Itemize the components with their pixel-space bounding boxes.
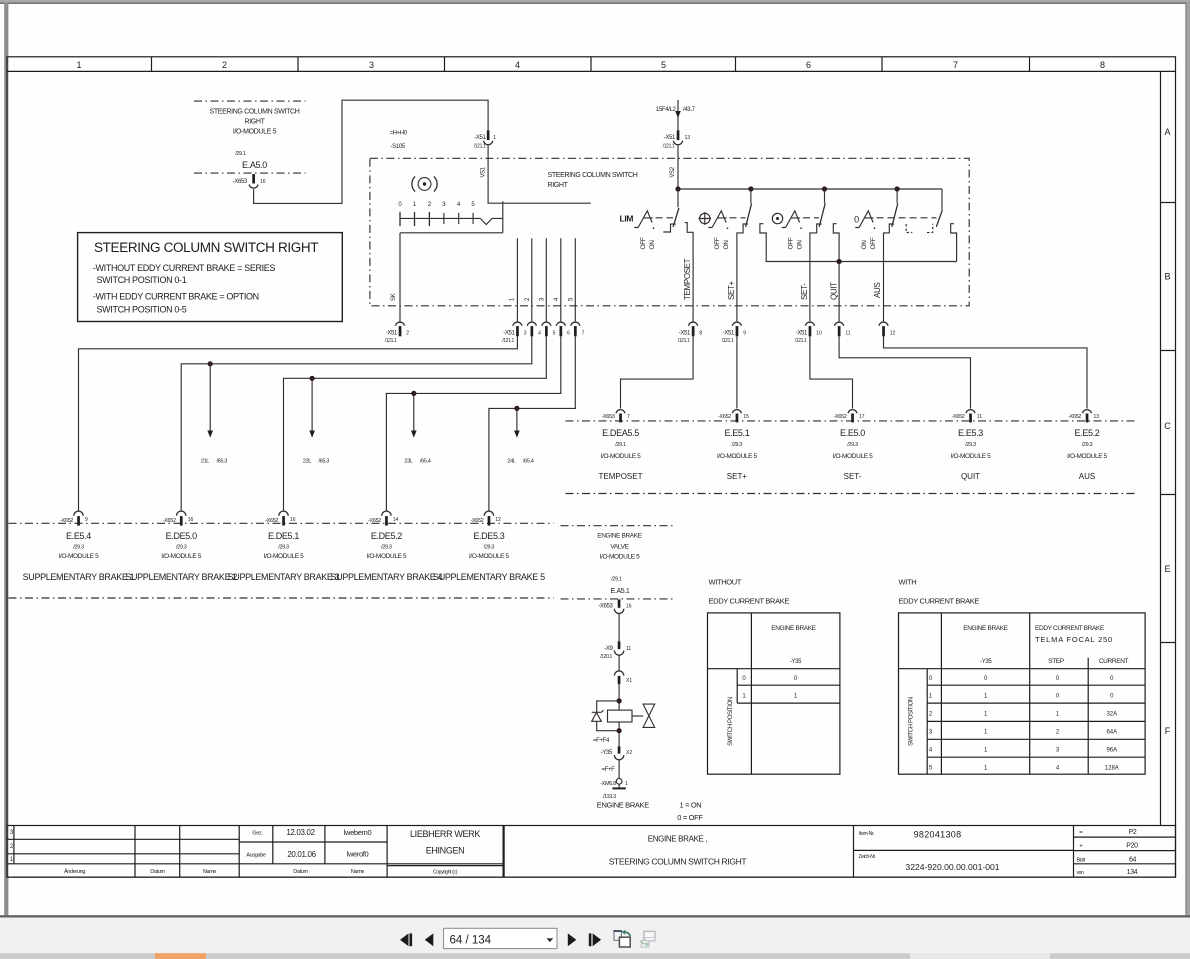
svg-text:0: 0	[854, 215, 859, 225]
switch box S105 boundary	[370, 158, 969, 305]
QUIT contact to bus and pin 11	[830, 224, 840, 322]
svg-text:9: 9	[85, 517, 88, 523]
wire X51.7 to E.DE5.3	[489, 336, 575, 511]
svg-text:/121.1: /121.1	[663, 144, 675, 150]
svg-text:6: 6	[806, 60, 811, 70]
pushbutton AUS actuator	[855, 211, 875, 229]
svg-text:B: B	[1164, 272, 1170, 282]
junction dot QUIT/bus	[837, 259, 842, 264]
svg-text:Datum: Datum	[150, 869, 165, 875]
svg-text:LIEBHERR WERK: LIEBHERR WERK	[410, 829, 480, 839]
svg-text:/121.1: /121.1	[795, 338, 807, 344]
svg-text:-X652: -X652	[718, 414, 731, 420]
svg-text:/29.3: /29.3	[381, 545, 392, 551]
eddy step fixed contact to bus	[951, 224, 957, 262]
svg-text:SUPPLEMENTARY BRAKE 5: SUPPLEMENTARY BRAKE 5	[433, 572, 545, 582]
connector -X652 pin 12 (E.DE5.3)	[470, 511, 501, 525]
svg-text:/29.3: /29.3	[484, 545, 495, 551]
LIM moving contact	[673, 189, 679, 227]
connector -X51 pin 4	[527, 322, 541, 336]
wire X1 to valve coil	[618, 684, 620, 710]
svg-text:64A: 64A	[1106, 730, 1117, 736]
rotary position wire 1	[510, 238, 518, 321]
pushbutton SET- actuator	[782, 211, 802, 229]
wire VS1 from X51.1 into switch box	[481, 145, 591, 203]
AUS mechanical link	[877, 217, 937, 219]
svg-text:SWITCH POSITION 0-1: SWITCH POSITION 0-1	[97, 275, 187, 285]
svg-text:-X652: -X652	[470, 518, 483, 524]
svg-text:Name: Name	[351, 869, 365, 875]
svg-text:QUIT: QUIT	[961, 472, 980, 481]
rotary position wire 3	[540, 238, 547, 321]
svg-text:11: 11	[845, 331, 850, 337]
svg-text:-X51: -X51	[679, 331, 691, 337]
engine brake valve module lower boundary	[561, 598, 673, 600]
svg-text:64: 64	[1129, 856, 1137, 863]
svg-text:SET-: SET-	[844, 472, 862, 481]
connector -X653 pin 16 (valve)	[598, 599, 632, 613]
svg-text:I/O-MODULE 5: I/O-MODULE 5	[833, 453, 874, 460]
wire X51.5 to E.DE5.1	[284, 336, 547, 511]
connector -X9 pin 11 /120.1	[600, 641, 631, 660]
svg-text:134: 134	[1127, 869, 1138, 876]
svg-text:-X652: -X652	[368, 518, 381, 524]
SET- output contact to pin 10	[810, 224, 822, 321]
svg-text:16: 16	[260, 179, 266, 185]
svg-text:-X653: -X653	[233, 179, 248, 185]
svg-text:Zeich-Nr.: Zeich-Nr.	[859, 854, 876, 860]
svg-text:10: 10	[816, 331, 822, 337]
svg-text:128A: 128A	[1105, 766, 1119, 772]
rotate view icon	[613, 930, 630, 947]
svg-text:/119.3: /119.3	[603, 794, 616, 800]
svg-text:E.DE5.2: E.DE5.2	[371, 531, 402, 541]
svg-text:I/O-MODULE 5: I/O-MODULE 5	[366, 553, 407, 560]
svg-text:SUPPLEMENTARY BRAKE 4: SUPPLEMENTARY BRAKE 4	[331, 572, 443, 582]
supply wire 15F4/L2 from /43.7	[656, 100, 696, 130]
info note box steering column switch right	[78, 233, 343, 322]
table without eddy current brake	[708, 578, 840, 775]
svg-text:-WITHOUT EDDY CURRENT BRAKE =: -WITHOUT EDDY CURRENT BRAKE = SERIES	[93, 263, 276, 273]
svg-text:-X51: -X51	[723, 331, 735, 337]
svg-text:I/O-MODULE 5: I/O-MODULE 5	[264, 553, 305, 560]
module E.E5.1 SET+	[717, 428, 758, 481]
svg-text:TEMPOSET: TEMPOSET	[683, 258, 692, 300]
svg-text:32A: 32A	[1106, 712, 1117, 718]
rail wire VS2 inside box	[678, 188, 942, 190]
svg-text:ON: ON	[649, 240, 656, 250]
svg-text:16: 16	[188, 517, 194, 523]
svg-text:SET+: SET+	[727, 472, 748, 481]
svg-text:22L: 22L	[303, 459, 311, 465]
connector -X51 pin 2 /121.1	[385, 322, 410, 344]
wire X51.8 to E.DEA5.5	[621, 336, 694, 408]
svg-text:24L: 24L	[507, 459, 515, 465]
svg-text:EDDY CURRENT BRAKE: EDDY CURRENT BRAKE	[1035, 625, 1105, 632]
svg-text:SUPPLEMENTARY BRAKE 3: SUPPLEMENTARY BRAKE 3	[228, 572, 340, 582]
table with eddy current brake	[899, 578, 1146, 775]
E-row lower boundary	[9, 597, 554, 599]
svg-text:SUPPLEMENTARY BRAKE 1: SUPPLEMENTARY BRAKE 1	[23, 572, 135, 582]
module E.DE5.0 SUPPLEMENTARY BRAKE 2	[125, 531, 237, 582]
svg-text:8: 8	[699, 331, 702, 337]
svg-text:EHINGEN: EHINGEN	[426, 846, 465, 856]
svg-text:SWITCH POSITION: SWITCH POSITION	[728, 697, 734, 746]
svg-text:/121.1: /121.1	[474, 144, 486, 150]
wire X51.3 to E.E5.4	[79, 336, 518, 511]
svg-text:STEERING COLUMN SWITCH: STEERING COLUMN SWITCH	[210, 109, 300, 116]
page number box 64 / 134	[444, 928, 557, 948]
svg-text:-X9: -X9	[604, 646, 613, 652]
svg-text:23L: 23L	[404, 459, 412, 465]
svg-text:SK: SK	[391, 293, 397, 301]
svg-text:=F+F: =F+F	[602, 767, 616, 773]
svg-text:-WITH EDDY CURRENT BRAKE = OPT: -WITH EDDY CURRENT BRAKE = OPTION	[93, 291, 259, 301]
svg-text:I/O-MODULE 5: I/O-MODULE 5	[601, 453, 642, 460]
svg-text:F: F	[1165, 726, 1171, 736]
svg-text:=H+H0: =H+H0	[390, 131, 408, 137]
svg-text:OFF: OFF	[870, 237, 877, 249]
reference arrow 22L /65.3	[303, 378, 329, 464]
svg-text:lwerof0: lwerof0	[347, 850, 369, 859]
svg-text:-X51: -X51	[474, 135, 486, 141]
connector -X652 pin 17 (E.E5.0)	[834, 410, 865, 423]
connector -Y35 X2	[601, 746, 633, 759]
svg-text:4: 4	[538, 331, 541, 337]
svg-text:-X652: -X652	[1068, 414, 1081, 420]
junction dot 21L	[208, 361, 213, 366]
svg-text:E.DE5.0: E.DE5.0	[166, 531, 197, 541]
junction dot AUS	[895, 186, 900, 191]
junction dot SET+	[748, 186, 753, 191]
connector -X51 pin 6	[556, 322, 570, 336]
pushbutton SET+ actuator	[708, 211, 728, 229]
connector -X51 pin 7	[571, 322, 585, 336]
LIM mechanical link	[656, 217, 674, 219]
svg-text:11: 11	[626, 646, 631, 652]
svg-text:VS1: VS1	[481, 166, 487, 177]
connector X1	[614, 671, 632, 684]
I/O module E.A5.0 steering column switch right	[194, 101, 306, 173]
svg-text:-X652: -X652	[163, 518, 176, 524]
rotary common bar and VS1 tap	[400, 201, 503, 233]
svg-text:11: 11	[977, 414, 982, 420]
module E.DE5.3 SUPPLEMENTARY BRAKE 5	[433, 531, 545, 582]
svg-text:von: von	[1077, 870, 1085, 876]
rotary switch position scale 0-5	[398, 202, 502, 226]
module E.DE5.2 SUPPLEMENTARY BRAKE 4	[331, 531, 443, 582]
svg-text:E.DE5.3: E.DE5.3	[473, 531, 504, 541]
last page button	[589, 933, 601, 946]
svg-text:I/O-MODULE 5: I/O-MODULE 5	[469, 553, 510, 560]
svg-text:6: 6	[567, 331, 570, 337]
svg-text:/65.4: /65.4	[523, 459, 534, 465]
connector -X652 pin 14 (E.DE5.2)	[368, 511, 399, 526]
svg-text:P2: P2	[1129, 829, 1137, 836]
svg-text:-X653: -X653	[598, 604, 613, 610]
svg-text:-Y35: -Y35	[980, 659, 992, 665]
svg-text:96A: 96A	[1106, 748, 1117, 754]
svg-text:13: 13	[685, 135, 691, 141]
svg-text:/29.3: /29.3	[965, 442, 976, 448]
svg-text:16: 16	[626, 604, 632, 610]
valve coil Y35	[608, 710, 633, 746]
svg-text:/29.3: /29.3	[847, 442, 858, 448]
svg-text:5: 5	[553, 331, 556, 337]
SET+ mechanical link	[730, 217, 746, 219]
svg-text:TELMA FOCAL 250: TELMA FOCAL 250	[1035, 635, 1113, 644]
wire VS2 from X51.13 to rail	[670, 145, 678, 189]
svg-text:/121.1: /121.1	[722, 338, 734, 344]
wire to ground	[618, 784, 620, 788]
E-row modules boundary	[9, 522, 554, 524]
svg-text:X2: X2	[626, 750, 632, 756]
svg-text:/121.1: /121.1	[502, 338, 514, 344]
svg-text:I/O-MODULE 5: I/O-MODULE 5	[717, 453, 758, 460]
svg-text:/29.1: /29.1	[235, 151, 246, 157]
svg-text:E.A5.0: E.A5.0	[242, 160, 267, 170]
module E.E5.3 QUIT	[951, 428, 992, 481]
svg-text:OFF: OFF	[788, 237, 795, 249]
reference arrow 21L /65.3	[201, 364, 227, 465]
C-row modules lower boundary	[566, 493, 1136, 495]
svg-text:I/O-MODULE 5: I/O-MODULE 5	[59, 553, 100, 560]
svg-text:12: 12	[495, 517, 501, 523]
svg-text:ON: ON	[797, 240, 804, 250]
next page button	[568, 933, 577, 946]
terminal -XM6.8 pin 1	[600, 778, 628, 787]
svg-text:3: 3	[524, 331, 527, 337]
connector -X51 pin 3 /121.1	[502, 322, 527, 344]
svg-text:I/O-MODULE 5: I/O-MODULE 5	[233, 129, 277, 136]
switch assembly S105 labels	[390, 131, 408, 151]
rotary switch knob	[412, 177, 437, 192]
svg-text:-S105: -S105	[391, 144, 406, 150]
svg-text:ENGINE BRAKE: ENGINE BRAKE	[771, 625, 817, 632]
svg-text:E.E5.1: E.E5.1	[724, 428, 749, 438]
wire X51.9 to E.E5.1	[736, 336, 738, 408]
svg-text:SET+: SET+	[727, 280, 736, 300]
suppressor diode branch	[592, 701, 619, 731]
svg-text:/65.4: /65.4	[420, 459, 431, 465]
svg-text:-Y35: -Y35	[601, 750, 613, 756]
svg-text:Datum: Datum	[293, 869, 308, 875]
svg-text:-X51: -X51	[503, 331, 515, 337]
rotary position wire 2	[525, 238, 532, 321]
svg-text:STEERING COLUMN SWITCH: STEERING COLUMN SWITCH	[548, 172, 638, 179]
wire X653.16 to X9.11	[618, 614, 620, 642]
C-row modules boundary	[566, 420, 1136, 422]
previous page button	[425, 933, 434, 946]
svg-text:/120.1: /120.1	[600, 654, 612, 660]
AUS output contact to pin 12	[884, 224, 895, 321]
svg-text:ENGINE BRAKE: ENGINE BRAKE	[963, 625, 1009, 632]
svg-text:-X652: -X652	[265, 518, 278, 524]
wire X51.4 to E.DE5.0	[181, 336, 532, 511]
svg-text:13: 13	[1094, 414, 1100, 420]
svg-text:1: 1	[76, 60, 81, 70]
optional eddy contact (dashed)	[906, 224, 933, 233]
svg-text:ENGINE BRAKE: ENGINE BRAKE	[597, 801, 649, 810]
junction dot 24L	[514, 406, 519, 411]
svg-text:15: 15	[743, 414, 749, 420]
engine brake valve module boundary	[561, 525, 673, 527]
svg-text:2: 2	[222, 60, 227, 70]
svg-text:-X652: -X652	[60, 518, 73, 524]
svg-text:1: 1	[625, 781, 628, 787]
wire X51.10 to E.E5.0	[810, 336, 853, 408]
svg-text:/29.3: /29.3	[73, 545, 84, 551]
ground bar	[612, 787, 625, 789]
svg-text:/29.3: /29.3	[176, 545, 187, 551]
svg-text:E.A5.1: E.A5.1	[611, 588, 630, 595]
svg-text:I/O-MODULE 5: I/O-MODULE 5	[1067, 453, 1108, 460]
svg-text:0 = OFF: 0 = OFF	[677, 813, 703, 822]
wire X51.6 to E.DE5.2	[386, 336, 560, 511]
SET- mechanical link	[803, 217, 819, 219]
svg-text:7: 7	[953, 60, 958, 70]
svg-text:20.01.06: 20.01.06	[287, 850, 316, 859]
svg-text:/29.1: /29.1	[611, 577, 622, 583]
svg-text:X1: X1	[626, 678, 632, 684]
module E.E5.4 SUPPLEMENTARY BRAKE 1	[23, 531, 135, 582]
connector -X652 pin 11 (E.E5.3)	[952, 410, 983, 423]
svg-text:SUPPLEMENTARY BRAKE 2: SUPPLEMENTARY BRAKE 2	[125, 572, 237, 582]
svg-text:VALVE: VALVE	[610, 544, 629, 551]
connector -X653 pin 7 (E.DEA5.5)	[602, 410, 630, 423]
module E.E5.2 AUS	[1067, 428, 1108, 481]
svg-text:21L: 21L	[201, 459, 209, 465]
svg-text:+: +	[1079, 844, 1083, 850]
AUS moving contact	[892, 189, 898, 227]
svg-text:9: 9	[743, 331, 746, 337]
svg-text:Änderung: Änderung	[64, 868, 85, 875]
wire X51.11 to E.E5.3	[839, 336, 970, 408]
junction node top of coil	[617, 698, 622, 703]
svg-text:OFF: OFF	[640, 237, 647, 249]
connector -X51 pin 5	[542, 322, 556, 336]
svg-text:/43.7: /43.7	[683, 107, 696, 113]
svg-text:16: 16	[290, 517, 296, 523]
svg-text:2: 2	[406, 331, 409, 337]
connector -X652 pin 16 (E.DE5.0)	[163, 511, 194, 526]
svg-text:-X653: -X653	[602, 414, 615, 420]
svg-text:E.E5.3: E.E5.3	[958, 428, 983, 438]
svg-text:OFF: OFF	[714, 237, 721, 249]
LIM output contact to TEMPOSET	[685, 223, 693, 322]
svg-text:CURRENT: CURRENT	[1099, 658, 1129, 665]
valve symbol	[632, 704, 655, 727]
svg-text:P20: P20	[1126, 843, 1138, 850]
junction node bottom of coil	[617, 728, 622, 733]
svg-text:ON: ON	[723, 240, 730, 250]
reference arrow 24L /65.4	[507, 408, 533, 464]
svg-text:-XM6.8: -XM6.8	[600, 781, 616, 787]
connector -X51 pin 10 /121.1	[795, 322, 822, 344]
svg-text:Item-Nr.: Item-Nr.	[859, 831, 874, 837]
svg-text:Name: Name	[203, 869, 217, 875]
svg-text:QUIT: QUIT	[830, 282, 839, 300]
svg-text:/65.3: /65.3	[217, 459, 228, 465]
svg-text:/29.3: /29.3	[732, 442, 743, 448]
svg-text:Ausgabe: Ausgabe	[246, 852, 266, 858]
connector -X51 pin 9 /121.1	[722, 322, 747, 344]
svg-text:/29.3: /29.3	[1082, 442, 1093, 448]
svg-text:WITH: WITH	[899, 578, 917, 587]
wire X653.16 to X51.1	[254, 100, 489, 203]
svg-text:A: A	[1164, 127, 1170, 137]
svg-text:STEP: STEP	[1048, 658, 1064, 665]
reference arrow 23L /65.4	[404, 393, 430, 464]
connector -X652 pin 13 (E.E5.2)	[1068, 410, 1099, 423]
svg-text:ON: ON	[861, 240, 868, 250]
SCHEMATIC	[78, 100, 970, 322]
svg-text:I/O-MODULE 5: I/O-MODULE 5	[600, 554, 641, 561]
connector -X653 pin 16 (E.A5.0)	[233, 174, 266, 188]
wire Y35.X2 to terminal	[618, 760, 620, 779]
module E.DE5.1 SUPPLEMENTARY BRAKE 3	[228, 531, 340, 582]
first page button	[400, 933, 412, 946]
pushbutton LIM actuator	[634, 211, 654, 229]
svg-text:-X652: -X652	[952, 414, 965, 420]
svg-text:ENGINE BRAKE ,: ENGINE BRAKE ,	[648, 835, 708, 844]
svg-text:AUS: AUS	[1079, 472, 1095, 481]
svg-text:I/O-MODULE 5: I/O-MODULE 5	[951, 453, 992, 460]
junction dot 22L	[310, 376, 315, 381]
wire X51.12 to E.E5.2	[884, 336, 1088, 408]
svg-text:I/O-MODULE 5: I/O-MODULE 5	[161, 553, 202, 560]
module E.A5.1 engine brake valve	[597, 533, 643, 596]
SET+ moving contact	[746, 189, 752, 227]
svg-text:8: 8	[1100, 60, 1105, 70]
svg-text:/29.1: /29.1	[615, 442, 626, 448]
svg-text:17: 17	[859, 414, 865, 420]
LIM resting contact stub	[663, 224, 676, 232]
connector -X652 pin 15 (E.E5.1)	[718, 410, 749, 423]
SET+ second contact to bus	[760, 224, 957, 262]
SET- moving contact	[819, 189, 825, 227]
svg-text:/121.1: /121.1	[678, 338, 690, 344]
svg-text:4: 4	[515, 60, 520, 70]
svg-text:lwebem0: lwebem0	[344, 828, 372, 837]
connector -X51 pin 8 /121.1	[678, 322, 703, 344]
svg-text:STEERING COLUMN SWITCH RIGHT: STEERING COLUMN SWITCH RIGHT	[94, 240, 318, 255]
svg-text:E.DEA5.5: E.DEA5.5	[602, 428, 639, 438]
svg-text:C: C	[1164, 421, 1171, 431]
svg-text:/121.1: /121.1	[385, 338, 397, 344]
svg-text:LIM: LIM	[620, 214, 634, 224]
switch box title	[548, 172, 638, 189]
svg-text:E.DE5.1: E.DE5.1	[268, 531, 299, 541]
TOOLBAR	[0, 915, 1190, 959]
svg-text:-X51: -X51	[664, 135, 676, 141]
module E.DEA5.5 TEMPOSET	[598, 428, 642, 481]
svg-text:-X652: -X652	[834, 414, 847, 420]
eddy step moving contact	[936, 189, 942, 227]
connector -X51 pin 13 /121.1	[663, 130, 691, 149]
svg-text:982041308: 982041308	[914, 830, 962, 840]
wire SK to X51.2	[391, 233, 400, 322]
svg-text:15F4/L2: 15F4/L2	[656, 107, 677, 113]
svg-text:3224-920.00.00.001-001: 3224-920.00.00.001-001	[905, 862, 999, 872]
svg-text:RIGHT: RIGHT	[548, 182, 569, 189]
rotary position wire 5	[569, 238, 576, 321]
wire X9.11 to X1	[618, 655, 620, 671]
TITLEBLOCK	[7, 826, 1176, 878]
svg-text:TEMPOSET: TEMPOSET	[598, 472, 642, 481]
svg-text:7: 7	[627, 414, 630, 420]
junction dot VS2/LIM	[675, 186, 680, 191]
